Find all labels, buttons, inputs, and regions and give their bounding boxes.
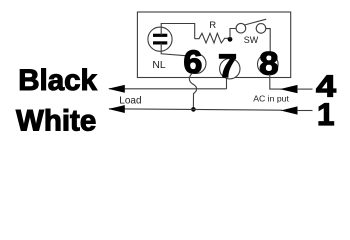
svg-text:AC in put: AC in put <box>253 94 289 104</box>
node junction dot on white line <box>191 107 196 112</box>
wire: black/load line <box>109 88 227 90</box>
wire: terminal 8 down to AC line <box>270 74 283 89</box>
svg-text:7: 7 <box>218 48 237 84</box>
wire: terminal 7 down to black line <box>226 78 228 89</box>
terminal 7 circle <box>220 58 240 78</box>
arrowhead AC 1 line <box>281 106 298 114</box>
node junction dot (resistor/switch/terminal7) <box>228 37 233 42</box>
neon lamp NL envelope <box>148 27 172 51</box>
svg-text:Load: Load <box>119 96 141 107</box>
resistor R zigzag <box>195 33 230 43</box>
enclosure box <box>137 12 290 78</box>
svg-text:SW: SW <box>244 35 259 45</box>
wire: stub to numeral 1 <box>297 110 313 112</box>
svg-text:NL: NL <box>152 60 165 71</box>
wire: junction up to switch left contact <box>230 29 236 40</box>
terminal 6 circle <box>186 54 206 74</box>
switch SW blade (open) <box>244 19 266 25</box>
svg-text:1: 1 <box>317 96 335 132</box>
wire: lamp bottom lead to terminal 6 <box>161 43 192 56</box>
wire: terminal 6 down with crossover squiggle to junction on white line <box>189 73 196 107</box>
neon lamp NL electrodes <box>153 34 167 37</box>
wire: lamp top lead to resistor <box>161 24 195 39</box>
svg-text:8: 8 <box>259 45 279 81</box>
svg-text:6: 6 <box>183 44 202 80</box>
arrowhead black line <box>108 85 125 93</box>
svg-text:White: White <box>16 104 96 137</box>
arrowhead AC 4 line <box>280 85 298 93</box>
svg-text:R: R <box>209 20 216 31</box>
wire: switch right contact to terminal 8 <box>266 29 271 55</box>
terminal 8 circle <box>258 54 279 75</box>
wire: stub to numeral 4 <box>297 88 313 90</box>
switch SW right contact <box>256 24 266 34</box>
arrowhead white line <box>108 105 125 113</box>
wire: white/neutral line <box>109 109 282 110</box>
switch SW left contact <box>236 23 246 33</box>
svg-text:Black: Black <box>18 64 97 97</box>
